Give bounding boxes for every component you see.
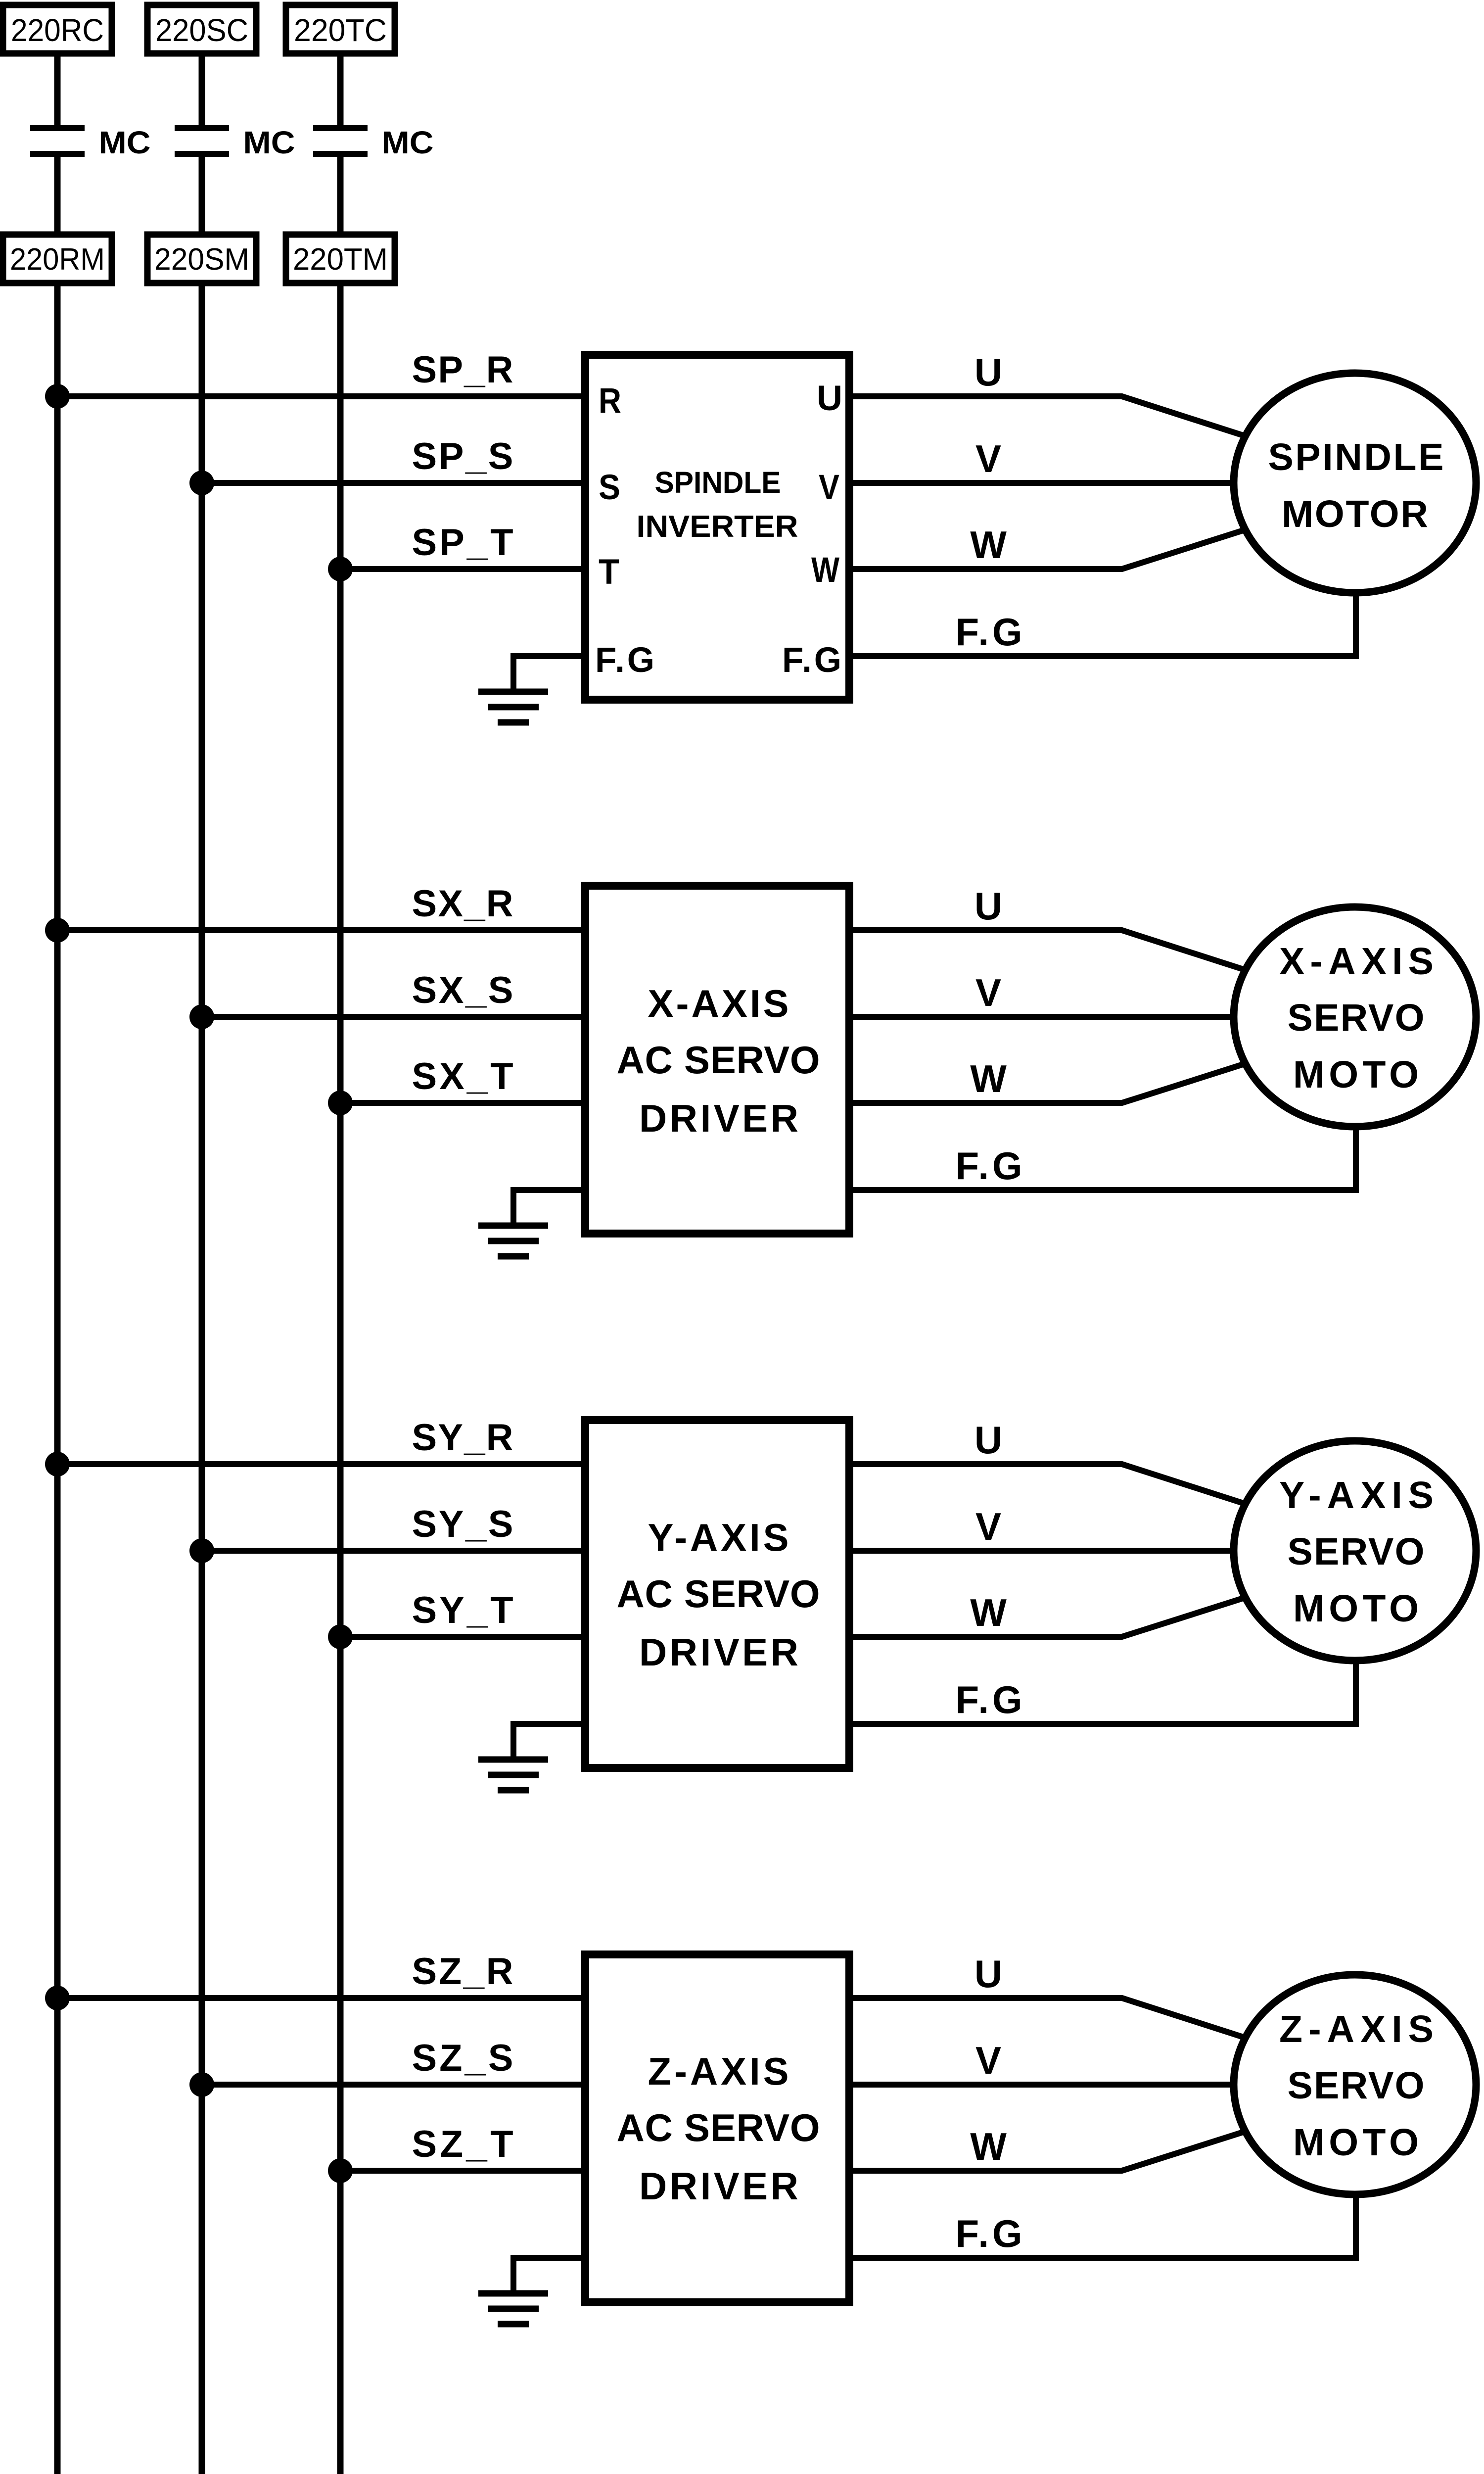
junction SZ_S tap: [189, 2072, 214, 2097]
contactor contact MC (R phase): [30, 128, 85, 154]
wire V phase to motor: [849, 1014, 1242, 1020]
wire W phase to motor: [849, 527, 1254, 569]
junction SX_T tap: [328, 1091, 353, 1115]
wire contact MC to 220SM: [199, 157, 205, 237]
svg-text:220TM: 220TM: [293, 242, 388, 277]
svg-text:W: W: [970, 1591, 1007, 1634]
wire SY_T: [340, 1634, 585, 1640]
wire SP_T: [340, 566, 585, 572]
wire 220TC to contact MC: [337, 53, 344, 126]
svg-text:V: V: [819, 468, 839, 507]
wire SY_S: [202, 1548, 585, 1554]
junction SP_T tap: [328, 557, 353, 581]
svg-text:V: V: [975, 2039, 1001, 2082]
contactor contact MC (T phase): [313, 128, 368, 154]
svg-text:SERVO: SERVO: [1288, 1530, 1425, 1573]
Y-AXIS AC servo driver U3: [585, 1420, 849, 1768]
wire F.G to motor frame: [849, 591, 1356, 656]
ground: [478, 1226, 548, 1256]
svg-text:220TC: 220TC: [294, 12, 387, 48]
svg-text:SP_S: SP_S: [412, 435, 513, 477]
junction SP_S tap: [189, 471, 214, 495]
ground: [478, 692, 548, 722]
svg-text:SPINDLE: SPINDLE: [655, 466, 781, 499]
svg-text:SERVO: SERVO: [1288, 2064, 1425, 2107]
motor M3 Y-AXIS SERVO MOTO: [1234, 1441, 1476, 1661]
junction SY_S tap: [189, 1538, 214, 1563]
svg-text:MOTO: MOTO: [1293, 1053, 1419, 1096]
svg-text:SY_T: SY_T: [412, 1589, 513, 1631]
junction SZ_R tap: [45, 1986, 70, 2010]
Z-AXIS AC servo driver U4: [585, 1954, 849, 2302]
wire U phase to motor: [849, 1998, 1254, 2041]
wire SZ_S: [202, 2082, 585, 2088]
svg-text:V: V: [975, 971, 1001, 1014]
svg-text:X-AXIS: X-AXIS: [648, 982, 789, 1025]
svg-text:220RM: 220RM: [10, 242, 105, 277]
contactor contact MC (S phase): [175, 128, 229, 154]
wire contact MC to 220RM: [54, 157, 61, 237]
svg-text:AC SERVO: AC SERVO: [617, 1572, 820, 1616]
X-AXIS AC servo driver U2: [585, 886, 849, 1234]
node 220SM: [147, 235, 256, 283]
wire SP_S: [202, 480, 585, 486]
svg-text:DRIVER: DRIVER: [639, 2164, 798, 2208]
wire U phase to motor: [849, 930, 1254, 973]
svg-text:U: U: [974, 1952, 1002, 1996]
junction SP_R tap: [45, 384, 70, 409]
motor M1 SPINDLE MOTOR: [1234, 373, 1476, 593]
wire S-phase bus (220SM vertical): [199, 283, 205, 2474]
svg-text:MC: MC: [243, 125, 295, 160]
wire SZ_T: [340, 2168, 585, 2174]
svg-text:SX_T: SX_T: [412, 1055, 513, 1097]
wire SX_T: [340, 1100, 585, 1106]
ground: [478, 1760, 548, 1790]
svg-text:220SM: 220SM: [154, 242, 249, 277]
motor M2 X-AXIS SERVO MOTO: [1234, 907, 1476, 1127]
svg-text:DRIVER: DRIVER: [639, 1096, 798, 1140]
svg-text:T: T: [599, 553, 619, 592]
svg-text:R: R: [599, 381, 621, 421]
wire W phase to motor: [849, 1061, 1254, 1103]
svg-text:SY_S: SY_S: [412, 1503, 513, 1545]
svg-text:U: U: [974, 350, 1002, 394]
wire F.G to motor frame: [849, 2192, 1356, 2258]
svg-text:SP_R: SP_R: [412, 349, 513, 391]
svg-text:W: W: [811, 551, 839, 590]
wire V phase to motor: [849, 1548, 1242, 1554]
motor M4 Z-AXIS SERVO MOTO: [1234, 1975, 1476, 2194]
wire F.G to motor frame: [849, 1659, 1356, 1724]
svg-text:W: W: [970, 1057, 1007, 1100]
svg-text:MOTOR: MOTOR: [1282, 493, 1428, 535]
svg-text:MOTO: MOTO: [1293, 2121, 1419, 2164]
node 220RM: [3, 235, 112, 283]
svg-text:V: V: [975, 437, 1001, 480]
svg-text:AC SERVO: AC SERVO: [617, 2106, 820, 2149]
svg-text:W: W: [970, 523, 1007, 567]
wire W phase to motor: [849, 1595, 1254, 1637]
wire 220RC to contact MC: [54, 53, 61, 126]
wire F.G to ground: [513, 656, 585, 692]
wire SZ_R: [57, 1995, 585, 2001]
wire W phase to motor: [849, 2129, 1254, 2171]
spindle inverter U1: [585, 355, 849, 700]
svg-text:MC: MC: [382, 125, 434, 160]
wire SX_R: [57, 927, 585, 933]
wire SY_R: [57, 1461, 585, 1467]
svg-text:INVERTER: INVERTER: [637, 510, 798, 544]
junction SY_R tap: [45, 1452, 70, 1476]
svg-text:MOTO: MOTO: [1293, 1587, 1419, 1630]
wire SP_R: [57, 393, 585, 399]
junction SX_R tap: [45, 918, 70, 943]
svg-text:220RC: 220RC: [11, 12, 104, 48]
wire F.G to ground: [513, 1190, 585, 1226]
wire V phase to motor: [849, 480, 1242, 486]
svg-text:U: U: [974, 884, 1002, 928]
wire R-phase bus (220RM vertical): [54, 283, 61, 2474]
svg-text:SP_T: SP_T: [412, 522, 513, 564]
wire V phase to motor: [849, 2082, 1242, 2088]
wire contact MC to 220TM: [337, 157, 344, 237]
node 220RC: [3, 5, 112, 53]
svg-text:U: U: [974, 1418, 1002, 1462]
wire F.G to ground: [513, 1724, 585, 1760]
svg-text:SX_S: SX_S: [412, 969, 513, 1011]
wire T-phase bus (220TM vertical): [337, 283, 344, 2474]
wire 220SC to contact MC: [199, 53, 205, 126]
ground: [478, 2293, 548, 2324]
node 220SC: [147, 5, 256, 53]
wire U phase to motor: [849, 396, 1254, 439]
node 220TM: [286, 235, 395, 283]
wire F.G to ground: [513, 2258, 585, 2293]
svg-text:U: U: [817, 379, 842, 418]
svg-text:AC SERVO: AC SERVO: [617, 1038, 820, 1082]
junction SY_T tap: [328, 1624, 353, 1649]
node 220TC: [286, 5, 395, 53]
svg-text:DRIVER: DRIVER: [639, 1630, 798, 1674]
wire F.G to motor frame: [849, 1125, 1356, 1190]
svg-text:MC: MC: [99, 125, 151, 160]
svg-text:W: W: [970, 2125, 1007, 2168]
junction SZ_T tap: [328, 2158, 353, 2183]
svg-text:SX_R: SX_R: [412, 883, 513, 925]
wire U phase to motor: [849, 1464, 1254, 1507]
svg-text:V: V: [975, 1505, 1001, 1548]
svg-text:SY_R: SY_R: [412, 1417, 513, 1459]
svg-text:S: S: [599, 468, 620, 507]
svg-text:220SC: 220SC: [155, 12, 248, 48]
svg-text:SZ_T: SZ_T: [412, 2123, 513, 2165]
svg-text:SERVO: SERVO: [1288, 997, 1425, 1039]
junction SX_S tap: [189, 1004, 214, 1029]
wire SX_S: [202, 1014, 585, 1020]
